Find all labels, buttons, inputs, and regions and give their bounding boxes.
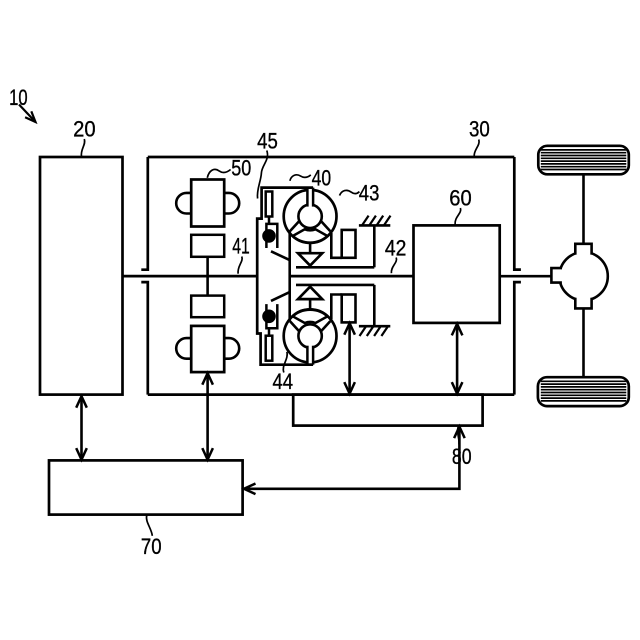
svg-text:40: 40 [312,166,332,191]
ground top hatch [359,216,391,268]
pump motor 44 right spoke [321,321,331,332]
box 30 transaxle case outline [141,157,521,395]
label 60 [449,185,471,224]
svg-text:44: 44 [273,369,294,394]
svg-text:60: 60 [449,185,471,210]
svg-text:42: 42 [385,235,407,260]
label 45 [257,128,278,198]
one-way clutch stub bottom [309,299,312,310]
brake 44 plate [331,295,341,320]
one-way clutch 44 triangle [298,287,322,299]
pump motor 44 outer circle [284,310,337,363]
svg-text:20: 20 [73,117,96,142]
clutch 45 upper link [271,251,290,260]
label 80 [452,427,472,469]
pump motor 44 shaft slot [307,344,313,365]
lower motor body [191,326,224,372]
svg-text:70: 70 [141,534,162,559]
clutch 45 upper disc [266,192,273,217]
wire input shaft from box 20 [123,275,259,278]
motor 50 right ear [224,193,239,214]
svg-text:10: 10 [9,85,28,110]
top wheel tire [538,146,629,175]
svg-text:43: 43 [359,180,380,205]
lower motor right ear [224,338,239,359]
label 50 [207,155,251,180]
box 20 power source [40,157,123,395]
bottom wheel tire [538,377,629,406]
label 70 [141,516,162,560]
label 42 [385,235,407,273]
ground bottom hatch [359,285,390,336]
brake 43 plate [331,233,341,258]
label 20 [73,117,96,157]
pump motor 43 outer circle [284,190,337,243]
arrow brake44-box80 [344,323,355,393]
one-way clutch stub top [309,243,312,254]
svg-text:50: 50 [231,155,251,180]
differential left neck [551,268,562,283]
box 80 hydraulic unit [293,395,482,426]
box 60 drive unit [414,225,500,323]
arrow motor-box70 [202,373,213,459]
brake 44 drum [342,295,356,323]
clutch 45 upper piston [263,224,278,248]
pump motor 44 stator wedge [293,309,328,323]
lower motor left ear [176,338,191,359]
brake 43 drum [342,230,356,258]
gear 41 upper stem [206,257,209,276]
label 41 [232,233,250,273]
differential top neck [575,244,591,255]
label 40 [290,166,331,191]
differential bottom neck [575,298,591,309]
pump motor 43 left spoke [290,221,300,232]
motor 50 body [191,180,224,227]
differential circle [559,252,607,300]
arrow box20-box70 [76,396,87,459]
axle upper [582,174,585,244]
wire output shaft to box 60 [289,275,414,278]
svg-text:45: 45 [257,128,278,153]
bottom reaction rail [296,284,374,287]
label 43 [340,180,380,205]
pump motor 44 left spoke [290,321,300,332]
arrow box80-box70 [244,427,465,495]
label 10 with arrow [9,85,35,122]
lower motor stem [206,276,209,296]
pump motor 43 shaft slot [307,188,313,209]
axle lower [582,308,585,377]
svg-text:80: 80 [452,444,472,469]
clutch 45 frame [257,188,313,365]
top reaction rail [296,266,374,269]
lower gear block [191,296,224,318]
clutch 45 lower disc stem [268,328,271,336]
motor 50 left ear [176,193,191,214]
svg-text:41: 41 [232,233,250,258]
box 70 controller [49,460,243,514]
gear 41 upper block [191,235,224,257]
clutch 45 lower piston [263,304,278,328]
svg-text:30: 30 [469,117,490,142]
one-way clutch 43 triangle [298,253,322,265]
arrow box60-box80 [452,324,463,394]
label 44 [273,352,294,394]
hub shaft vertical [288,231,291,321]
clutch 45 lower link [271,292,290,301]
pump motor 43 right spoke [321,221,331,232]
clutch 45 upper disc stem [268,217,271,225]
clutch 45 lower disc [266,336,273,361]
pump motor 44 inner circle [298,324,321,347]
wire axle from box 60 to differential [500,275,553,278]
pump motor 43 stator wedge [293,229,328,243]
pump motor 43 inner circle [298,205,321,228]
label 30 [469,117,490,157]
